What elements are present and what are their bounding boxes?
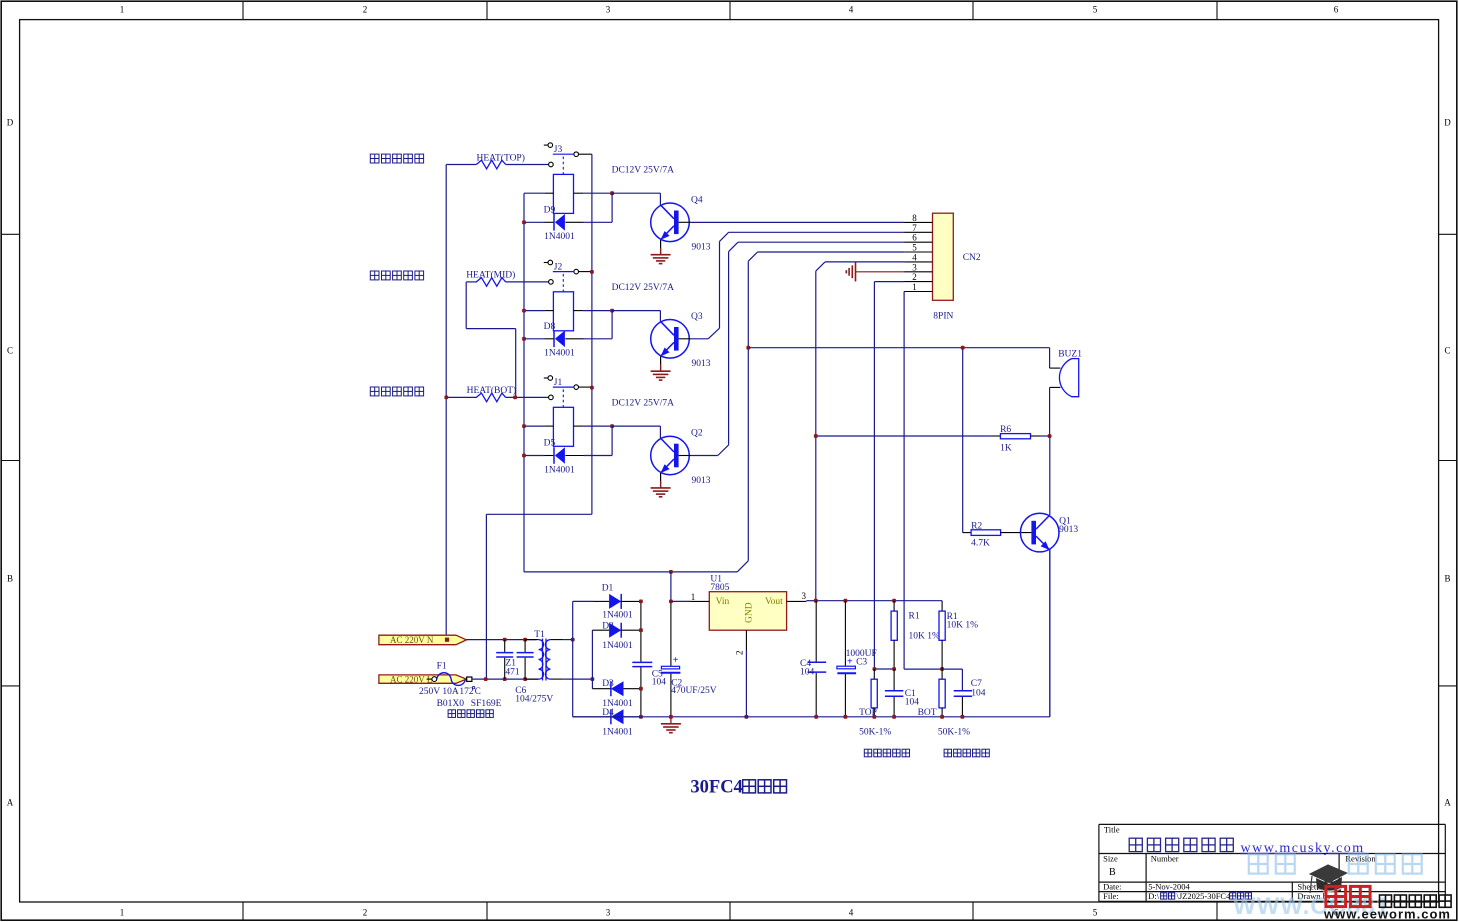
svg-text:Q4: Q4 <box>691 196 703 206</box>
svg-text:1K: 1K <box>1000 443 1012 453</box>
svg-text:D: D <box>7 118 14 128</box>
svg-text:30FC4: 30FC4 <box>690 778 742 798</box>
svg-text:Vin: Vin <box>716 597 730 607</box>
svg-text:AC 220V L: AC 220V L <box>390 675 432 685</box>
svg-text:1N4001: 1N4001 <box>602 611 633 621</box>
svg-text:BUZ1: BUZ1 <box>1058 349 1082 359</box>
svg-text:J2: J2 <box>554 262 563 272</box>
svg-text:DC12V 25V/7A: DC12V 25V/7A <box>612 166 675 176</box>
svg-text:4: 4 <box>912 252 917 262</box>
svg-text:D3: D3 <box>602 679 614 689</box>
svg-text:104: 104 <box>971 689 986 699</box>
svg-text:A: A <box>1444 798 1451 808</box>
svg-text:2: 2 <box>912 272 917 282</box>
svg-text:1: 1 <box>120 908 125 918</box>
svg-text:3: 3 <box>802 591 807 601</box>
svg-text:Q3: Q3 <box>691 312 703 322</box>
svg-text:DC12V 25V/7A: DC12V 25V/7A <box>612 283 675 293</box>
svg-text:D8: D8 <box>544 322 556 332</box>
svg-text:9013: 9013 <box>692 359 711 369</box>
svg-text:3: 3 <box>606 5 611 15</box>
svg-text:104: 104 <box>800 668 815 678</box>
svg-text:2: 2 <box>735 651 745 656</box>
svg-text:6: 6 <box>1334 5 1339 15</box>
svg-text:D9: D9 <box>544 205 556 215</box>
svg-text:R1: R1 <box>909 611 920 621</box>
svg-text:4: 4 <box>849 5 854 15</box>
svg-text:9013: 9013 <box>1059 525 1078 535</box>
svg-text:5: 5 <box>912 243 917 253</box>
svg-text:J3: J3 <box>554 145 563 155</box>
svg-text:1N4001: 1N4001 <box>544 349 575 359</box>
svg-text:1N4001: 1N4001 <box>602 641 633 651</box>
svg-text:470UF/25V: 470UF/25V <box>671 686 717 696</box>
svg-text:104: 104 <box>652 678 667 688</box>
svg-text:D1: D1 <box>602 584 614 594</box>
svg-text:172: 172 <box>459 687 474 697</box>
svg-text:9013: 9013 <box>692 476 711 486</box>
svg-text:D5: D5 <box>544 439 556 449</box>
svg-text:D2: D2 <box>602 622 614 632</box>
svg-text:4: 4 <box>849 908 854 918</box>
svg-text:C: C <box>1444 346 1450 356</box>
svg-text:C: C <box>475 686 481 696</box>
svg-text:104: 104 <box>905 698 920 708</box>
svg-text:J1: J1 <box>554 378 563 388</box>
svg-text:Vout: Vout <box>765 597 783 607</box>
svg-text:1N4001: 1N4001 <box>602 727 633 737</box>
svg-text:5: 5 <box>1093 908 1098 918</box>
svg-text:471: 471 <box>505 668 520 678</box>
svg-text:10K 1%: 10K 1% <box>947 621 978 631</box>
svg-text:7805: 7805 <box>710 583 729 593</box>
svg-text:B: B <box>1109 867 1116 878</box>
svg-text:A: A <box>7 798 14 808</box>
svg-text:www.eeworm.com: www.eeworm.com <box>1323 907 1451 922</box>
svg-text:C: C <box>7 346 13 356</box>
svg-text:D:\: D:\ <box>1148 891 1160 901</box>
svg-text:1: 1 <box>120 5 125 15</box>
svg-text:8: 8 <box>912 213 917 223</box>
svg-text:5: 5 <box>1093 5 1098 15</box>
svg-text:B: B <box>1444 574 1450 584</box>
svg-text:6: 6 <box>912 233 917 243</box>
svg-text:1N4001: 1N4001 <box>544 232 575 242</box>
svg-text:3: 3 <box>606 908 611 918</box>
svg-text:1000UF: 1000UF <box>846 649 877 659</box>
svg-text:7: 7 <box>912 223 917 233</box>
svg-text:+: + <box>673 655 679 666</box>
svg-text:D: D <box>1444 118 1451 128</box>
svg-text:1N4001: 1N4001 <box>544 465 575 475</box>
svg-text:F1: F1 <box>437 662 447 672</box>
svg-text:T1: T1 <box>534 630 545 640</box>
svg-text:2: 2 <box>363 908 368 918</box>
svg-text:1: 1 <box>912 282 917 292</box>
svg-text:HEAT(TOP): HEAT(TOP) <box>477 152 525 163</box>
svg-text:104/275V: 104/275V <box>515 695 553 705</box>
svg-text:8PIN: 8PIN <box>933 312 953 322</box>
svg-text:50K-1%: 50K-1% <box>938 727 970 737</box>
svg-text:Q2: Q2 <box>691 429 703 439</box>
svg-text:\JZ2025-30FC4: \JZ2025-30FC4 <box>1177 891 1232 901</box>
svg-text:CN2: CN2 <box>963 253 981 263</box>
svg-text:AC 220V N: AC 220V N <box>390 635 434 645</box>
svg-text:HEAT(MID): HEAT(MID) <box>466 270 515 281</box>
svg-text:R6: R6 <box>1000 425 1011 435</box>
svg-text:File:: File: <box>1103 891 1119 901</box>
svg-text:1: 1 <box>691 592 696 602</box>
svg-text:10K 1%: 10K 1% <box>909 631 940 641</box>
svg-text:C3: C3 <box>856 658 867 668</box>
svg-text:9013: 9013 <box>692 243 711 253</box>
svg-text:C7: C7 <box>971 679 982 689</box>
svg-text:GND: GND <box>745 602 755 623</box>
svg-text:Title: Title <box>1104 825 1120 835</box>
svg-text:4.7K: 4.7K <box>971 538 990 548</box>
svg-text:B01X0: B01X0 <box>437 699 465 709</box>
svg-text:R2: R2 <box>971 522 982 532</box>
svg-text:3: 3 <box>912 262 917 272</box>
svg-text:250V 10A: 250V 10A <box>419 687 459 697</box>
svg-text:DC12V 25V/7A: DC12V 25V/7A <box>612 399 675 409</box>
svg-text:SF169E: SF169E <box>471 699 502 709</box>
svg-text:B: B <box>7 574 13 584</box>
svg-text:Number: Number <box>1151 854 1179 864</box>
svg-text:50K-1%: 50K-1% <box>859 727 891 737</box>
svg-text:Size: Size <box>1103 854 1118 864</box>
svg-text:HEAT(BOT): HEAT(BOT) <box>467 385 517 396</box>
svg-text:2: 2 <box>363 5 368 15</box>
